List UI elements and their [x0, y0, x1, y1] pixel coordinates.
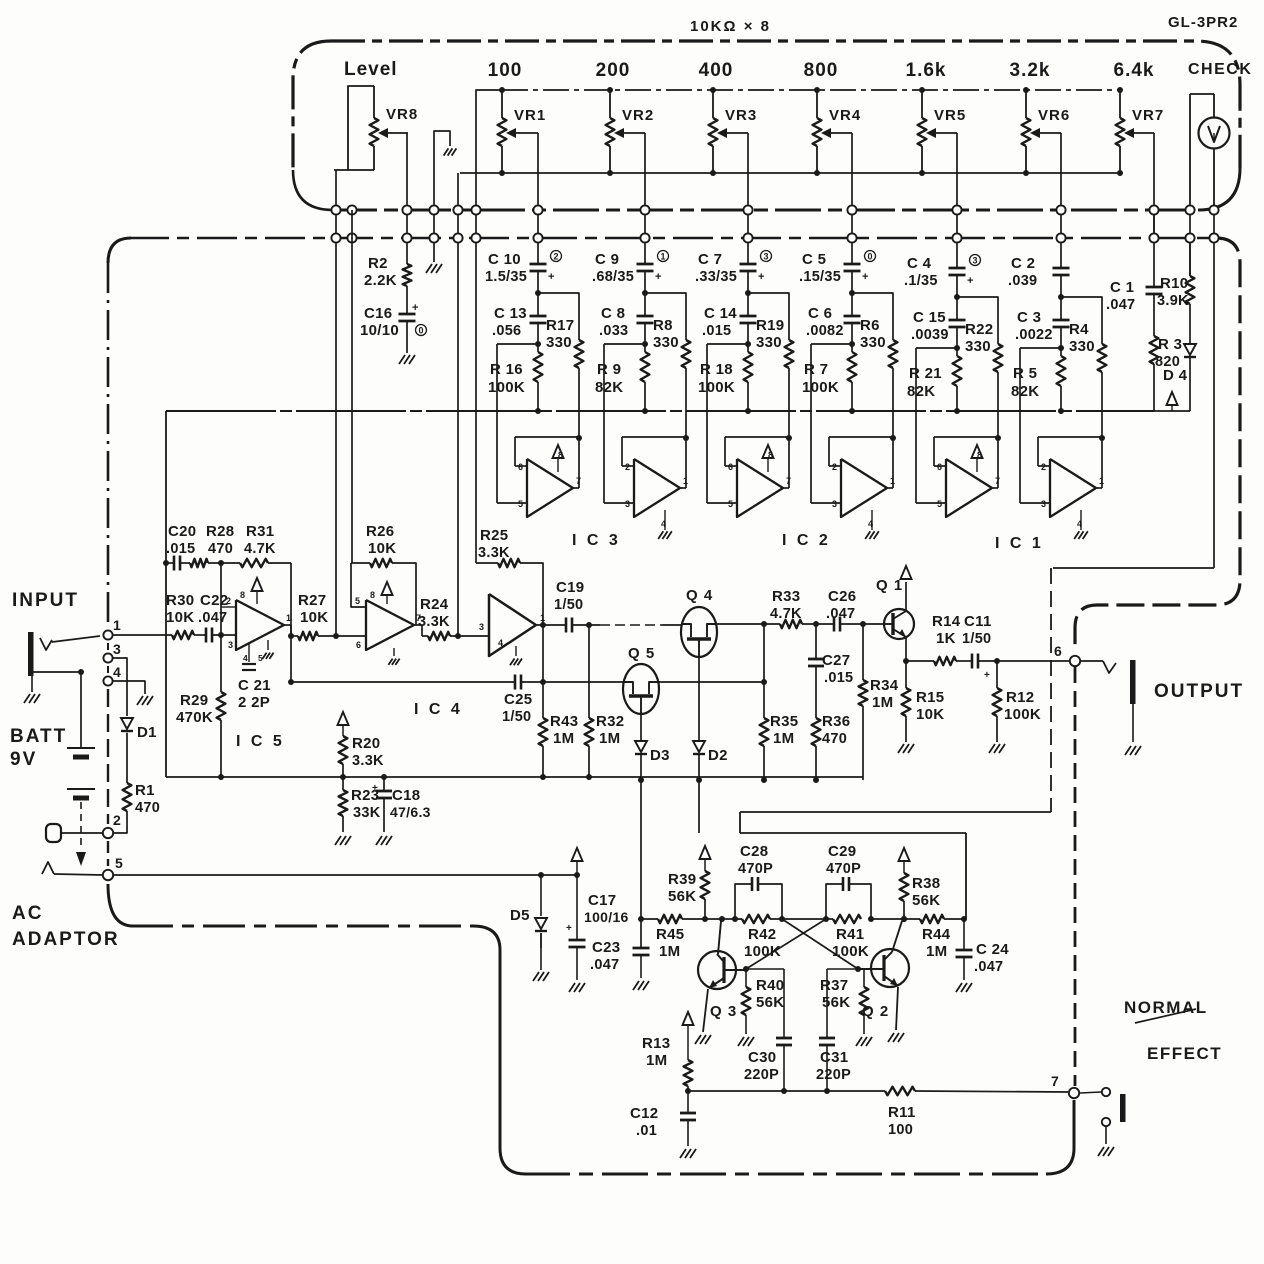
- svg-text:1M: 1M: [553, 730, 574, 747]
- svg-text:.0039: .0039: [911, 327, 949, 343]
- svg-text:3: 3: [625, 499, 630, 509]
- label R26 10K: [366, 523, 396, 557]
- potentiometer VR2: [606, 87, 655, 176]
- resistor R3 820: [1150, 294, 1183, 411]
- label IC 5: [236, 733, 285, 750]
- svg-text:4: 4: [868, 519, 873, 529]
- resistor R43 1M: [539, 682, 579, 780]
- transistor Q2: [858, 921, 909, 1042]
- svg-text:56K: 56K: [912, 892, 940, 909]
- svg-text:+: +: [412, 302, 419, 314]
- diode D2: [693, 656, 728, 783]
- label NORMAL: [1124, 998, 1208, 1017]
- svg-text:Q 1: Q 1: [876, 577, 903, 594]
- wire outer input line: [916, 348, 957, 503]
- svg-text:0: 0: [418, 326, 423, 336]
- wire wire B to R35 node: [660, 679, 767, 685]
- svg-text:470K: 470K: [176, 709, 213, 726]
- svg-text:100K: 100K: [698, 379, 735, 396]
- capacitor C23 .047: [590, 919, 650, 990]
- svg-text:R2: R2: [368, 255, 388, 272]
- wire bus drop to C9: [644, 238, 646, 264]
- wire pot bottom rail (y=173): [458, 173, 1120, 238]
- svg-text:C26: C26: [828, 588, 856, 605]
- label 800: [804, 60, 839, 81]
- svg-text:R43: R43: [550, 713, 578, 730]
- supply arrow at C17: [572, 848, 583, 875]
- svg-text:C29: C29: [828, 843, 856, 860]
- capacitor C3 .0022: [1015, 309, 1070, 343]
- svg-text:2: 2: [1041, 462, 1046, 472]
- wire outer input line: [1020, 348, 1061, 503]
- svg-text:3: 3: [479, 622, 484, 632]
- label 10K x 8 header: [690, 18, 771, 35]
- svg-text:C 24: C 24: [976, 941, 1009, 958]
- svg-text:R10: R10: [1160, 275, 1188, 292]
- svg-text:3: 3: [228, 640, 233, 650]
- transistor Q1: [876, 577, 914, 639]
- resistor R36 470: [812, 666, 851, 783]
- svg-text:R24: R24: [420, 596, 449, 613]
- check-point loop with voltmeter: [1190, 94, 1230, 210]
- wire node under top cap: [954, 275, 960, 320]
- svg-text:.039: .039: [1008, 273, 1037, 289]
- wire bus drop to C7: [747, 238, 749, 264]
- svg-text:4: 4: [113, 664, 121, 680]
- svg-text:82K: 82K: [595, 379, 623, 396]
- svg-text:1: 1: [113, 617, 121, 633]
- svg-text:C16: C16: [364, 305, 392, 322]
- svg-text:2: 2: [113, 812, 121, 828]
- capacitor C6 .0082: [806, 305, 861, 339]
- svg-text:1/50: 1/50: [502, 709, 531, 725]
- capacitor C22 .047: [194, 592, 236, 643]
- svg-text:R 16: R 16: [490, 361, 523, 378]
- svg-text:8: 8: [240, 590, 245, 600]
- svg-text:4.7K: 4.7K: [244, 541, 276, 557]
- label OUTPUT: [1154, 681, 1244, 702]
- svg-text:+: +: [372, 783, 378, 794]
- svg-text:VR1: VR1: [514, 107, 546, 124]
- svg-text:R38: R38: [912, 875, 940, 892]
- svg-text:Q 3: Q 3: [710, 1003, 737, 1020]
- wire VR6 wiper drop: [1060, 133, 1062, 240]
- label CHECK: [1188, 61, 1252, 78]
- svg-text:100K: 100K: [802, 379, 839, 396]
- svg-text:2: 2: [226, 596, 231, 606]
- potentiometer VR1: [498, 87, 547, 176]
- resistor R19 330: [748, 293, 793, 438]
- potentiometer VR3: [709, 87, 758, 176]
- label 100: [488, 60, 523, 81]
- svg-text:C 13: C 13: [494, 305, 527, 322]
- label R28 470: [206, 523, 234, 557]
- svg-text:EFFECT: EFFECT: [1147, 1044, 1222, 1063]
- svg-text:VR2: VR2: [622, 107, 654, 124]
- wire feedback loop R25: [476, 559, 546, 685]
- svg-text:R39: R39: [668, 871, 696, 888]
- svg-text:VR5: VR5: [934, 107, 966, 124]
- svg-text:R26: R26: [366, 523, 394, 540]
- svg-text:.1/35: .1/35: [904, 273, 938, 289]
- svg-text:1/50: 1/50: [554, 597, 583, 613]
- wire VR4 wiper drop: [851, 133, 853, 240]
- wire op-amp feedback box: [1038, 435, 1105, 466]
- svg-text:.0022: .0022: [1015, 327, 1053, 343]
- label R31 4.7K: [244, 523, 276, 557]
- resistor R39 56K: [668, 846, 711, 922]
- label R25 3.3K: [478, 527, 510, 561]
- wire VR2 wiper drop: [644, 133, 646, 240]
- label Level: [344, 59, 398, 80]
- svg-text:7: 7: [576, 476, 581, 486]
- svg-text:R 5: R 5: [1013, 365, 1037, 382]
- svg-text:R25: R25: [480, 527, 508, 544]
- wire op-amp feedback box: [829, 435, 896, 466]
- resistor R37 56K: [820, 966, 872, 1046]
- capacitor C30 220P: [744, 969, 792, 1094]
- svg-text:VR3: VR3: [725, 107, 757, 124]
- svg-text:C27: C27: [822, 652, 850, 669]
- op-amp section at x=852: [832, 438, 895, 539]
- wire node under mid cap: [535, 323, 541, 352]
- ground below C16: [399, 355, 415, 364]
- svg-text:R15: R15: [916, 689, 944, 706]
- wire node under top cap: [1058, 275, 1064, 320]
- svg-text:470P: 470P: [738, 861, 773, 877]
- svg-text:6: 6: [356, 640, 361, 650]
- svg-text:R45: R45: [656, 926, 684, 943]
- svg-text:R8: R8: [653, 317, 673, 334]
- svg-text:800: 800: [804, 60, 839, 81]
- potentiometer VR4: [813, 87, 862, 176]
- svg-text:R42: R42: [748, 926, 776, 943]
- resistor R9 82K: [595, 352, 649, 414]
- wire Level loop to bus and IC4: [335, 170, 337, 636]
- svg-text:C19: C19: [556, 579, 584, 596]
- svg-text:D5: D5: [510, 907, 530, 924]
- svg-text:5: 5: [355, 596, 360, 606]
- svg-text:220P: 220P: [816, 1067, 851, 1083]
- label 3.2k: [1010, 60, 1051, 81]
- svg-text:+: +: [967, 275, 974, 287]
- op-amp IC5 first stage: [221, 578, 291, 650]
- svg-text:3: 3: [113, 641, 121, 657]
- wire flip-flop top rail: [740, 833, 966, 919]
- svg-text:+: +: [862, 271, 869, 283]
- potentiometer VR8: [334, 86, 418, 170]
- svg-text:47/6.3: 47/6.3: [390, 804, 431, 820]
- label BATT 9V: [10, 726, 67, 770]
- svg-text:1.6k: 1.6k: [906, 60, 947, 81]
- capacitor C18 47/6.3: [372, 774, 431, 845]
- svg-text:R19: R19: [756, 317, 784, 334]
- svg-text:6: 6: [1054, 643, 1062, 659]
- svg-text:82K: 82K: [907, 383, 935, 400]
- svg-text:8: 8: [768, 450, 773, 460]
- wire op-amp output (wire A): [536, 618, 682, 633]
- wire summing line y=411: [166, 410, 1154, 412]
- svg-text:R27: R27: [298, 592, 326, 609]
- label 400: [699, 60, 734, 81]
- svg-text:R30: R30: [166, 592, 194, 609]
- svg-text:C20: C20: [168, 523, 196, 540]
- capacitor C17 100/16: [566, 875, 629, 992]
- wire node under top cap: [849, 271, 855, 316]
- transistor Q5 (FET): [623, 645, 660, 714]
- svg-text:VR6: VR6: [1038, 107, 1070, 124]
- svg-text:3: 3: [763, 252, 768, 262]
- wire op-amp feedback box: [622, 435, 689, 466]
- svg-text:6: 6: [728, 462, 733, 472]
- op-amp section at x=538: [518, 438, 581, 517]
- main box right edge down to node 6: [1075, 238, 1240, 652]
- svg-text:56K: 56K: [756, 994, 784, 1011]
- svg-text:330: 330: [653, 334, 679, 351]
- svg-text:VR7: VR7: [1132, 107, 1164, 124]
- svg-text:C 15: C 15: [913, 309, 946, 326]
- svg-text:C 2: C 2: [1011, 255, 1035, 272]
- svg-text:C 3: C 3: [1017, 309, 1041, 326]
- svg-text:7: 7: [786, 476, 791, 486]
- svg-text:.015: .015: [824, 670, 853, 686]
- capacitor C21 22P: [238, 640, 274, 711]
- svg-text:C30: C30: [748, 1049, 776, 1066]
- node 6: [1054, 643, 1080, 666]
- resistor R42 100K: [742, 915, 785, 960]
- svg-text:1M: 1M: [599, 730, 620, 747]
- svg-text:1: 1: [683, 476, 688, 486]
- capacitor C13 .056: [492, 305, 547, 339]
- svg-text:2: 2: [625, 462, 630, 472]
- battery: [67, 669, 95, 866]
- svg-text:.0082: .0082: [806, 323, 844, 339]
- svg-text:Q 4: Q 4: [686, 587, 713, 604]
- svg-text:D2: D2: [708, 747, 728, 764]
- svg-text:C28: C28: [740, 843, 768, 860]
- svg-text:5: 5: [518, 499, 523, 509]
- wire feedback line y=563: [163, 556, 291, 571]
- svg-text:R37: R37: [820, 977, 848, 994]
- wire rail drop to R24 node: [457, 238, 459, 636]
- svg-text:BATT: BATT: [10, 726, 67, 747]
- label C20 .015: [166, 523, 196, 557]
- wire VR1 wiper drop: [537, 133, 539, 240]
- capacitor C28 470P: [732, 843, 782, 922]
- svg-text:8: 8: [370, 590, 375, 600]
- svg-text:3: 3: [972, 256, 977, 266]
- resistor R17 330: [538, 293, 583, 438]
- svg-text:AC: AC: [12, 903, 43, 924]
- svg-text:4: 4: [1077, 519, 1082, 529]
- wire bus rail 2 (main box top edge, y=238): [108, 238, 1218, 263]
- label IC 1: [995, 535, 1044, 552]
- svg-text:Q 5: Q 5: [628, 645, 655, 662]
- svg-text:1: 1: [890, 476, 895, 486]
- resistor R10 3.9K: [1157, 238, 1194, 309]
- resistor R41 100K: [832, 915, 874, 960]
- svg-text:5: 5: [728, 499, 733, 509]
- svg-text:R36: R36: [822, 713, 850, 730]
- svg-text:6.4k: 6.4k: [1114, 60, 1155, 81]
- svg-text:.01: .01: [636, 1123, 657, 1139]
- svg-text:10K: 10K: [368, 540, 396, 557]
- diode D1: [121, 718, 157, 741]
- potentiometer VR6: [1022, 87, 1071, 176]
- svg-text:10KΩ × 8: 10KΩ × 8: [690, 18, 771, 35]
- label C25 1/50: [502, 691, 532, 725]
- svg-text:R20: R20: [352, 735, 380, 752]
- wire right feed to flip-flop section: [740, 568, 1214, 833]
- wire outer input line: [811, 344, 852, 503]
- wire node under top cap: [642, 271, 648, 316]
- resistor R5 82K: [1011, 356, 1065, 414]
- wire pot top rail (y=90): [476, 90, 1120, 240]
- svg-text:3.3K: 3.3K: [478, 545, 510, 561]
- capacitor C1 .047: [1106, 238, 1163, 313]
- svg-text:R17: R17: [546, 317, 574, 334]
- transistor Q3: [695, 916, 746, 1044]
- svg-text:R44: R44: [922, 926, 951, 943]
- wire outer input line: [707, 344, 748, 503]
- svg-text:8: 8: [977, 450, 982, 460]
- top potentiometer box outline: [293, 41, 1240, 170]
- ground below bus stub: [426, 264, 442, 273]
- op-amp section at x=957: [937, 438, 1000, 517]
- svg-text:C25: C25: [504, 691, 532, 708]
- resistor R29 470K: [176, 635, 225, 780]
- svg-text:ADAPTOR: ADAPTOR: [12, 929, 120, 950]
- op-amp IC4 third stage: [479, 594, 545, 665]
- resistor R38 56K: [899, 848, 941, 922]
- wire big loop left edge: [165, 411, 167, 777]
- capacitor C9 .68/35: [592, 251, 669, 286]
- svg-text:56K: 56K: [668, 888, 696, 905]
- svg-text:.015: .015: [702, 323, 731, 339]
- svg-text:C18: C18: [392, 787, 420, 804]
- svg-text:2 2P: 2 2P: [238, 694, 270, 711]
- svg-text:1M: 1M: [872, 694, 893, 711]
- svg-text:0: 0: [867, 252, 872, 262]
- svg-text:R14: R14: [932, 613, 961, 630]
- svg-text:I C 1: I C 1: [995, 535, 1044, 552]
- svg-text:4: 4: [498, 638, 503, 648]
- resistor R45 1M: [638, 915, 736, 960]
- svg-text:D3: D3: [650, 747, 670, 764]
- svg-text:R 21: R 21: [909, 365, 942, 382]
- svg-text:330: 330: [860, 334, 886, 351]
- svg-text:+: +: [758, 271, 765, 283]
- wire input line: [108, 634, 172, 636]
- op-amp section at x=748: [728, 438, 791, 517]
- svg-text:R28: R28: [206, 523, 234, 540]
- wire VR5 wiper drop: [956, 133, 958, 240]
- svg-text:10K: 10K: [300, 609, 328, 626]
- resistor R35 1M: [760, 624, 799, 783]
- label IC 2: [782, 532, 831, 549]
- wire op-amp feedback box: [934, 435, 1001, 466]
- resistor R27 10K: [291, 592, 366, 640]
- svg-text:C 1: C 1: [1110, 279, 1134, 296]
- resistor R6 330: [852, 293, 897, 438]
- svg-text:C 6: C 6: [808, 305, 832, 322]
- wire op-amp feedback box: [725, 435, 792, 466]
- connector pin 5: [103, 855, 123, 880]
- svg-text:470: 470: [208, 541, 233, 557]
- label EFFECT: [1147, 1044, 1222, 1063]
- capacitor C12 .01: [630, 1091, 696, 1158]
- resistor R8 330: [645, 293, 690, 438]
- svg-text:.047: .047: [590, 957, 619, 973]
- svg-text:+: +: [566, 923, 572, 934]
- svg-text:82K: 82K: [1011, 383, 1039, 400]
- capacitor C7 .33/35: [695, 251, 772, 286]
- wire bus rail 1 (pot common, y=210): [293, 168, 1240, 210]
- wire check columns through rails: [1154, 210, 1214, 568]
- wire Q1 emitter to output line: [903, 637, 909, 664]
- wire D3 column to C23: [640, 780, 642, 919]
- svg-text:100K: 100K: [488, 379, 525, 396]
- label GL-3PR2: [1168, 14, 1238, 31]
- resistor R20 3.3K: [338, 712, 385, 780]
- op-amp section at x=645: [625, 438, 688, 539]
- supply arrow above Q1: [901, 566, 912, 611]
- svg-text:R 7: R 7: [804, 361, 828, 378]
- label 6.4k: [1114, 60, 1155, 81]
- svg-text:R41: R41: [836, 926, 864, 943]
- connector pin 2: [103, 812, 121, 838]
- svg-text:+: +: [655, 271, 662, 283]
- svg-text:470P: 470P: [826, 861, 861, 877]
- svg-text:10/10: 10/10: [360, 322, 399, 339]
- wire flip-flop bus segments: [736, 918, 833, 920]
- svg-text:C 10: C 10: [488, 251, 521, 268]
- label C19 1/50: [554, 579, 584, 613]
- capacitor C15 .0039: [911, 309, 966, 343]
- output jack: [1080, 660, 1141, 755]
- resistor R40 56K: [738, 966, 784, 1046]
- resistor R14 1K: [906, 613, 961, 665]
- diode D3: [635, 714, 670, 783]
- capacitor C8 .033: [599, 305, 654, 339]
- switch direction stroke: [1135, 1009, 1196, 1023]
- svg-text:C17: C17: [588, 892, 616, 909]
- svg-text:C 7: C 7: [698, 251, 722, 268]
- svg-text:2: 2: [832, 462, 837, 472]
- resistor R7 100K: [802, 352, 856, 414]
- svg-text:1.5/35: 1.5/35: [485, 269, 527, 285]
- svg-text:R12: R12: [1006, 689, 1034, 706]
- svg-text:C 9: C 9: [595, 251, 619, 268]
- wire bus drop to C5: [851, 238, 853, 264]
- resistor R16 100K: [488, 352, 542, 414]
- capacitor C27 .015: [808, 624, 853, 686]
- svg-text:C 14: C 14: [704, 305, 737, 322]
- svg-text:3.2k: 3.2k: [1010, 60, 1051, 81]
- capacitor C26 .047: [826, 588, 884, 632]
- svg-text:C11: C11: [964, 613, 992, 630]
- capacitor C16 10/10: [360, 286, 427, 353]
- svg-text:3.3K: 3.3K: [352, 753, 384, 769]
- svg-text:VR8: VR8: [386, 106, 418, 123]
- resistor R22 330: [957, 297, 1002, 438]
- capacitor C2 .039: [1008, 255, 1070, 289]
- wire node under mid cap: [642, 323, 648, 352]
- capacitor C24 .047: [956, 919, 1010, 992]
- svg-text:5: 5: [115, 855, 123, 871]
- svg-text:100K: 100K: [832, 943, 869, 960]
- svg-text:.047: .047: [974, 959, 1003, 975]
